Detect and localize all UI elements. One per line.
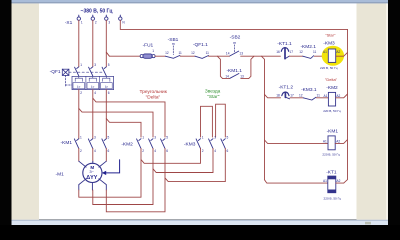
- delta bridge wire from L3 to KM2 pole1: [106, 119, 141, 137]
- svg-text:"Delta": "Delta": [146, 95, 161, 101]
- svg-text:13: 13: [240, 74, 244, 78]
- interlock contact KM2.1: [299, 44, 316, 59]
- M1 lead-out bottom left: [79, 179, 86, 190]
- yellow highlight on KM3 coil: [322, 46, 344, 66]
- motor M1: [56, 160, 120, 190]
- terminal X1:2: [91, 17, 94, 20]
- wire QF1 pole1 down to KM1 contact: [78, 90, 80, 139]
- svg-text:1: 1: [142, 135, 144, 139]
- M1 lead-in top middle: [92, 161, 94, 163]
- wire KM2 A2 to right rail: [336, 94, 348, 98]
- svg-text:-QF1.1: -QF1.1: [193, 42, 208, 48]
- QF1 trip unit block: [72, 76, 114, 89]
- KM2 pole1 contact: [137, 139, 141, 149]
- svg-text:-KT1.1: -KT1.1: [277, 41, 292, 47]
- svg-text:1: 1: [80, 63, 82, 67]
- wire KT1 A2 to right rail: [336, 182, 344, 184]
- link wire KM2 pole3 to KM3 pole3: [165, 149, 225, 182]
- wire KM1 A2 to right rail: [335, 140, 347, 144]
- svg-text:1: 1: [80, 135, 82, 139]
- svg-text:5: 5: [166, 135, 168, 139]
- QF1 I> box pole 2: [87, 83, 99, 89]
- svg-text:Треугольник: Треугольник: [140, 89, 168, 95]
- timer contact KT1.2 on rung 2: [276, 84, 294, 98]
- wire SB2 to KT1.1: [241, 55, 281, 57]
- KM2 pole3 contact: [161, 139, 165, 149]
- svg-text:12: 12: [299, 94, 303, 98]
- QF1 trip hook pole 3: [103, 76, 110, 81]
- wire KM2.1 to KM3 coil: [314, 55, 328, 57]
- KM3 pole3 contact: [221, 139, 225, 149]
- interlock contact KM3.1: [299, 87, 320, 100]
- svg-text:12: 12: [299, 50, 303, 54]
- wire motor U2 up to KM2 pole1 and down-routing: [79, 149, 141, 198]
- rail branch to rung 2: [265, 94, 281, 97]
- left control rail down with rung branches: [261, 56, 327, 183]
- QF1 pole 3 blade: [102, 67, 106, 76]
- FU1 end cap left: [140, 55, 143, 58]
- KT1 coil body: [328, 176, 336, 193]
- svg-text:A1: A1: [323, 140, 327, 144]
- svg-text:16: 16: [276, 50, 280, 54]
- delta bridge wire from L2 to KM2 pole5: [93, 98, 165, 137]
- wire QF1 pole3 down to KM1 contact: [105, 90, 107, 139]
- QF1 trip hook pole 1: [75, 76, 82, 81]
- svg-text:3: 3: [94, 135, 96, 139]
- svg-text:"Star": "Star": [325, 33, 336, 38]
- right beige panel: [357, 3, 387, 220]
- delta coil KM2: [323, 77, 341, 113]
- svg-text:1: 1: [202, 135, 204, 139]
- svg-text:11: 11: [313, 50, 317, 54]
- node tap L3 to control circuit: [106, 52, 109, 56]
- main coil KM1: [322, 129, 340, 157]
- timer contact KT1.1: [276, 41, 293, 59]
- M1 shaft pointer arrow: [105, 160, 120, 173]
- star bridge wire KM3 pole1 to pole3: [201, 106, 213, 137]
- stop button SB1: [165, 37, 182, 58]
- svg-text:4: 4: [94, 149, 96, 153]
- svg-text:A2: A2: [336, 179, 340, 183]
- svg-text:I>: I>: [105, 85, 108, 89]
- wire KM1 pole1 to motor lead U1: [78, 149, 80, 162]
- svg-text:A2: A2: [336, 50, 340, 54]
- contactor KM3 star contacts: [184, 135, 229, 153]
- wire KM1 pole2 to motor lead V1: [92, 149, 94, 162]
- svg-text:-KM1: -KM1: [327, 129, 339, 135]
- svg-text:220 В, 50 Гц: 220 В, 50 Гц: [322, 153, 340, 157]
- wire KT1.2 to KM3.1: [290, 97, 303, 99]
- contactor KM2 delta contacts: [121, 135, 168, 153]
- QF1 I> box pole 1: [73, 83, 85, 89]
- wire KM3.1 to KM2 coil: [316, 97, 328, 99]
- KT1.1 delayed contact arrow: [284, 48, 286, 59]
- SB2 NO blade: [230, 51, 239, 56]
- svg-text:-KT1.2: -KT1.2: [279, 84, 294, 90]
- wire KM3 A2 to right rail: [336, 52, 348, 56]
- KT1.2 delayed contact arrow: [284, 92, 286, 97]
- svg-text:-KT1: -KT1: [326, 169, 337, 175]
- branch down to latch contact KM1.1: [217, 56, 229, 78]
- svg-text:5: 5: [108, 135, 110, 139]
- svg-text:-KM1.1: -KM1.1: [226, 68, 242, 74]
- KM3 pole2 contact: [209, 139, 213, 149]
- wire QF1 pole2 down to KM1 contact: [92, 90, 94, 139]
- wire FU1 to SB1: [155, 55, 165, 57]
- svg-text:-FU1: -FU1: [143, 42, 154, 48]
- wire motor W2 up to KM2 pole3 routing: [106, 149, 165, 212]
- svg-text:3: 3: [214, 135, 216, 139]
- latch contact KM1.1: [225, 68, 244, 79]
- svg-text:2: 2: [142, 149, 144, 153]
- svg-text:Звезда: Звезда: [205, 88, 221, 94]
- wire N rail: down, right across, down right side to KT1: [120, 20, 347, 183]
- QF1 trip hook pole 2: [89, 76, 96, 81]
- SB1 NC blade: [165, 55, 180, 58]
- svg-text:2: 2: [80, 149, 82, 153]
- terminal X1:N: [119, 17, 122, 20]
- svg-text:12: 12: [165, 51, 169, 55]
- svg-text:"Star": "Star": [207, 94, 220, 100]
- svg-text:"Delta": "Delta": [325, 77, 338, 82]
- wire motor V2 up to KM2 pole2 routing: [93, 149, 153, 205]
- terminal X1:3: [105, 17, 108, 20]
- wire QF1.1 to SB2: [209, 55, 230, 57]
- QF1 pole 1 blade: [75, 67, 79, 76]
- svg-text:-KM2: -KM2: [326, 85, 338, 91]
- svg-text:-X1: -X1: [65, 20, 73, 26]
- svg-text:18: 18: [276, 94, 280, 98]
- svg-text:14: 14: [226, 51, 230, 55]
- KM3.1 NC blade: [303, 97, 316, 100]
- SB1 actuator dashed link: [172, 46, 174, 55]
- QF1 pole 2 blade: [89, 67, 93, 76]
- QF1 I> box pole 3: [101, 83, 113, 89]
- FU1 end cap right: [152, 55, 155, 58]
- svg-text:6: 6: [166, 149, 168, 153]
- KM2 coil body: [328, 92, 335, 106]
- KM1.1 NO blade: [230, 74, 239, 79]
- svg-text:3: 3: [94, 63, 96, 67]
- KM1 pole3 contact: [102, 139, 106, 149]
- svg-text:-M1: -M1: [56, 171, 65, 177]
- svg-text:6: 6: [108, 149, 110, 153]
- left beige panel: [12, 3, 40, 220]
- svg-text:-KM3: -KM3: [323, 40, 335, 46]
- wire KM1 pole3 to motor lead W1: [105, 149, 107, 162]
- right window edge highlight: [386, 3, 388, 220]
- branch up from KM1.1 to rung 1: [241, 56, 254, 78]
- svg-text:17: 17: [290, 94, 294, 98]
- KM2 pole2 contact: [149, 139, 153, 149]
- svg-text:-KM2: -KM2: [121, 141, 133, 147]
- svg-text:11: 11: [317, 94, 321, 98]
- wire SB1 to QF1.1: [180, 55, 195, 57]
- svg-text:5: 5: [108, 63, 110, 67]
- terminal X1:1: [77, 17, 80, 20]
- svg-text:5: 5: [227, 135, 229, 139]
- KT1 coil top band: [328, 176, 336, 179]
- svg-text:-KM3.1: -KM3.1: [301, 87, 317, 93]
- SB2 actuator dashed link: [234, 45, 236, 53]
- svg-text:11: 11: [178, 51, 182, 55]
- svg-text:-KM1: -KM1: [61, 140, 73, 146]
- svg-text:220 В, 50 Гц: 220 В, 50 Гц: [323, 109, 341, 113]
- svg-text:-KM3: -KM3: [184, 141, 196, 147]
- svg-text:2: 2: [80, 91, 82, 95]
- wire L2 phase down to QF1: [92, 20, 94, 67]
- KM2.1 NC blade: [303, 56, 314, 59]
- svg-text:6: 6: [227, 149, 229, 153]
- contactor KM1 main contacts: [61, 135, 110, 153]
- svg-text:17: 17: [289, 50, 293, 54]
- KM3 pole1 contact: [196, 139, 200, 149]
- QF1 linkage dashed horizontal: [69, 71, 104, 73]
- M1 lead-in top right: [99, 161, 106, 167]
- svg-text:2: 2: [95, 20, 97, 24]
- svg-text:I>: I>: [91, 85, 94, 89]
- start button SB2: [226, 35, 243, 56]
- svg-text:11: 11: [206, 51, 210, 55]
- svg-text:A1: A1: [323, 50, 327, 54]
- svg-text:A1: A1: [323, 94, 327, 98]
- KM1 coil body: [328, 136, 335, 150]
- M1 lead-out bottom middle: [91, 183, 93, 191]
- svg-text:~380 В, 50 Гц: ~380 В, 50 Гц: [81, 9, 114, 15]
- white canvas: [39, 3, 357, 219]
- circuit breaker QF1: [50, 63, 114, 95]
- star bridge wire KM3 pole3 to pole5: [216, 104, 226, 137]
- delta bridge wire from L1 to KM2 pole3: [79, 108, 153, 137]
- svg-text:A1: A1: [323, 179, 327, 183]
- svg-text:3: 3: [154, 135, 156, 139]
- svg-text:2: 2: [202, 149, 204, 153]
- svg-text:14: 14: [225, 74, 229, 78]
- control rung 1 wire from L3 tap to FU1: [109, 55, 140, 57]
- KT1 coil bottom band: [328, 190, 336, 193]
- time relay coil KT1: [323, 169, 341, 200]
- M1 stator circle: [83, 163, 102, 182]
- star coil KM3: [320, 33, 340, 70]
- QF1 linkage dashed vertical: [66, 75, 72, 86]
- svg-text:A2: A2: [336, 94, 340, 98]
- wire L3 phase down to QF1: [105, 20, 107, 67]
- M1 lead-in top left: [79, 161, 86, 167]
- svg-text:3~: 3~: [89, 169, 94, 174]
- M1 lead-out bottom right: [99, 179, 106, 190]
- wire L1 phase down to QF1: [78, 20, 80, 67]
- link wire KM2 pole2 to KM3 pole2: [153, 149, 213, 173]
- link wire KM2 pole1 to KM3 pole1: [141, 149, 201, 164]
- svg-text:-QF1: -QF1: [50, 69, 61, 75]
- wire KT1.1 to KM2.1: [289, 55, 302, 57]
- svg-text:3: 3: [108, 20, 110, 24]
- svg-text:4: 4: [154, 149, 156, 153]
- svg-text:-KM2.1: -KM2.1: [300, 44, 316, 50]
- rail branch to rung 3: [265, 140, 328, 143]
- bottom scrollbar strip: [12, 220, 389, 225]
- KM1 pole1 contact: [74, 139, 78, 149]
- svg-text:1: 1: [152, 49, 154, 53]
- breaker aux contact QF1.1: [191, 42, 209, 59]
- svg-text:12: 12: [191, 51, 195, 55]
- fuse FU1: [140, 42, 155, 58]
- svg-text:-SB2: -SB2: [230, 35, 241, 41]
- svg-text:I>: I>: [77, 85, 80, 89]
- svg-text:6: 6: [108, 91, 110, 95]
- svg-text:4: 4: [94, 91, 96, 95]
- svg-text:ΔYY: ΔYY: [86, 175, 97, 181]
- top toolbar strip: [12, 0, 389, 3]
- svg-text:13: 13: [239, 51, 243, 55]
- svg-text:220 В, 50 Гц: 220 В, 50 Гц: [320, 66, 338, 70]
- KM1 pole2 contact: [88, 139, 92, 149]
- svg-text:1: 1: [81, 20, 83, 24]
- QF1.1 NC blade: [195, 56, 209, 59]
- svg-text:220 В, 50 Гц: 220 В, 50 Гц: [324, 196, 342, 200]
- QF1 actuator box with X: [62, 69, 69, 75]
- KM3 coil body: [328, 49, 335, 62]
- FU1 body: [143, 54, 152, 58]
- svg-text:4: 4: [214, 149, 216, 153]
